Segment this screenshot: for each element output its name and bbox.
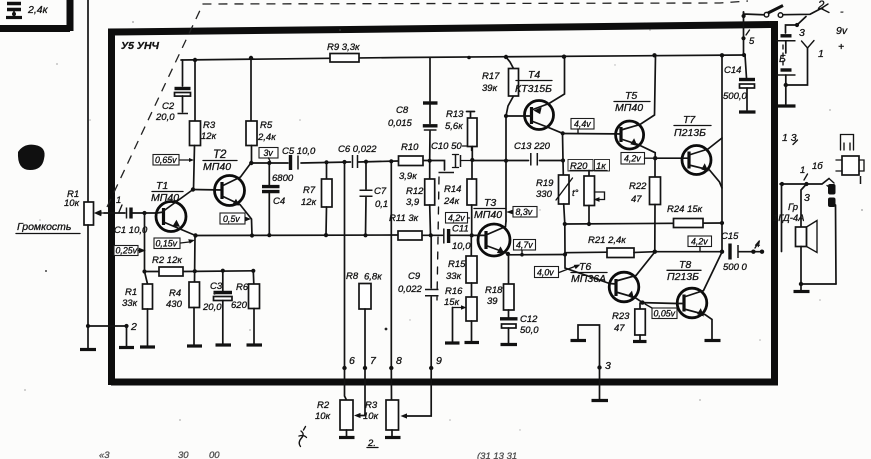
svg-text:0,022: 0,022 bbox=[398, 284, 422, 295]
svg-text:10,0: 10,0 bbox=[452, 241, 471, 252]
svg-text:15к: 15к bbox=[444, 297, 460, 308]
other module box top-left bbox=[0, 0, 70, 31]
resistor R22 47 bbox=[654, 158, 656, 177]
voltage 3v bbox=[259, 148, 278, 159]
svg-text:20,0: 20,0 bbox=[155, 112, 175, 123]
svg-text:R6: R6 bbox=[236, 282, 249, 293]
resistor R23 47 bbox=[639, 303, 641, 309]
svg-text:4,0v: 4,0v bbox=[537, 268, 554, 278]
wire R24 row y=224 bbox=[565, 223, 722, 224]
trim resistor R16 15k bbox=[466, 297, 477, 321]
svg-text:1: 1 bbox=[116, 195, 121, 206]
svg-text:R5: R5 bbox=[260, 120, 273, 131]
svg-text:R14: R14 bbox=[444, 184, 461, 195]
svg-text:3: 3 bbox=[804, 192, 810, 204]
svg-text:R16: R16 bbox=[445, 286, 463, 297]
wire R1 bottom to ground bbox=[88, 225, 127, 326]
svg-text:C4: C4 bbox=[273, 196, 285, 207]
svg-text:R7: R7 bbox=[303, 185, 316, 196]
wire rail bbox=[181, 55, 745, 60]
pencil squiggle bbox=[299, 427, 307, 447]
node 5 bbox=[741, 36, 745, 40]
svg-text:330: 330 bbox=[536, 189, 553, 200]
capacitor C11 10.0 bbox=[443, 229, 445, 244]
svg-text:4: 4 bbox=[755, 239, 760, 250]
wire T4 emitter node column x=563 bbox=[562, 133, 565, 175]
capacitor C6 0.022 bbox=[353, 155, 358, 168]
resistor R10 3.9k bbox=[399, 156, 424, 166]
svg-text:Гр: Гр bbox=[788, 202, 798, 213]
svg-text:КТ315Б: КТ315Б bbox=[515, 83, 552, 95]
transistor T2 MP40 bbox=[215, 176, 245, 206]
svg-text:1к: 1к bbox=[596, 161, 606, 172]
svg-text:R11 3к: R11 3к bbox=[389, 213, 419, 224]
wire x=565 down to emitter row bbox=[564, 224, 566, 255]
svg-text:3,9к: 3,9к bbox=[399, 171, 417, 182]
svg-text:3: 3 bbox=[799, 27, 805, 39]
svg-text:C1 10,0: C1 10,0 bbox=[114, 225, 148, 236]
svg-text:МП40: МП40 bbox=[474, 209, 502, 221]
svg-text:R1: R1 bbox=[125, 287, 137, 298]
svg-text:47: 47 bbox=[631, 194, 642, 205]
voltage 4.7v bbox=[514, 240, 536, 251]
capacitor 2.4k in top-left module bbox=[6, 4, 49, 18]
svg-text:R19: R19 bbox=[536, 178, 554, 189]
svg-text:C9: C9 bbox=[408, 271, 421, 282]
svg-text:«3: «3 bbox=[99, 450, 110, 459]
svg-text:R13: R13 bbox=[446, 109, 464, 120]
svg-text:430: 430 bbox=[166, 299, 183, 310]
svg-text:9v: 9v bbox=[836, 25, 848, 37]
wire pin8 vertical bbox=[390, 161, 392, 368]
svg-text:Б: Б bbox=[779, 53, 786, 65]
svg-text:R4: R4 bbox=[169, 288, 181, 299]
svg-text:500,0: 500,0 bbox=[723, 91, 747, 102]
wire T1 emitter down to R4 bbox=[194, 236, 197, 284]
svg-text:2,4к: 2,4к bbox=[27, 4, 49, 16]
resistor R3 12k bbox=[194, 60, 196, 121]
resistor R18 39 bbox=[508, 255, 510, 285]
node rail R3 bbox=[193, 58, 197, 62]
mechanical link dashed line (volume pot to switch) bbox=[107, 1, 748, 207]
capacitor C12 50.0 bbox=[500, 317, 518, 320]
svg-text:1: 1 bbox=[800, 165, 805, 176]
svg-text:R20: R20 bbox=[570, 161, 588, 172]
resistor R24 15k bbox=[674, 219, 704, 228]
capacitor C5 10.0 bbox=[289, 155, 292, 170]
svg-text:Т5: Т5 bbox=[625, 90, 637, 102]
svg-text:500 0: 500 0 bbox=[723, 262, 747, 273]
svg-text:5: 5 bbox=[749, 36, 755, 47]
capacitor C4 6800 bbox=[268, 163, 270, 185]
svg-text:C14: C14 bbox=[724, 65, 741, 76]
svg-text:33к: 33к bbox=[122, 298, 138, 309]
svg-text:4,7v: 4,7v bbox=[516, 240, 533, 250]
resistor R20 1k bbox=[588, 171, 590, 177]
resistor R7 12k bbox=[326, 162, 328, 179]
resistor R8 6.8k bbox=[359, 284, 371, 310]
svg-text:R23: R23 bbox=[612, 311, 630, 322]
svg-text:-: - bbox=[840, 6, 844, 18]
resistor R9 3.3k on rail bbox=[330, 54, 359, 63]
pin 1 tick bbox=[119, 205, 122, 212]
potentiometer R2 10k bbox=[340, 400, 353, 430]
svg-text:Т8: Т8 bbox=[679, 259, 691, 271]
svg-text:Громкость: Громкость bbox=[17, 221, 71, 233]
resistor R11 3k bbox=[398, 231, 422, 240]
svg-text:8,3v: 8,3v bbox=[516, 207, 533, 217]
wire to T5 base bbox=[563, 133, 616, 135]
svg-text:П213Б: П213Б bbox=[674, 127, 706, 139]
resistor R6 620 bbox=[252, 271, 255, 284]
wire T2 base bbox=[193, 189, 223, 192]
svg-text:R12: R12 bbox=[406, 186, 424, 197]
crease dashed vertical bbox=[437, 177, 439, 300]
resistor R5 2.4k bbox=[250, 58, 252, 121]
svg-text:1б: 1б bbox=[812, 161, 823, 172]
svg-text:6800: 6800 bbox=[272, 173, 294, 184]
svg-text:620: 620 bbox=[231, 300, 248, 311]
svg-text:9: 9 bbox=[436, 355, 442, 367]
voltage 4.4v bbox=[571, 119, 594, 130]
svg-text:R10: R10 bbox=[401, 142, 419, 153]
wires through bottom border to pots bbox=[345, 368, 347, 400]
svg-text:C2: C2 bbox=[162, 101, 175, 112]
svg-text:МП40: МП40 bbox=[151, 192, 179, 204]
wire input line from top bbox=[87, 0, 89, 202]
node 2 wire to ground bbox=[126, 326, 128, 346]
svg-text:4,2v: 4,2v bbox=[691, 237, 708, 247]
battery Б bbox=[781, 34, 792, 37]
resistor R21 2.4k bbox=[565, 251, 607, 254]
wire T6 emitter to T8 base bbox=[642, 302, 677, 305]
svg-text:(31 13 31: (31 13 31 bbox=[477, 451, 517, 459]
svg-text:R2: R2 bbox=[317, 400, 330, 411]
svg-text:0,1: 0,1 bbox=[375, 199, 388, 210]
svg-text:00: 00 bbox=[209, 450, 220, 459]
svg-text:0,5v: 0,5v bbox=[223, 214, 240, 224]
svg-text:R17: R17 bbox=[482, 71, 500, 82]
svg-text:6,8к: 6,8к bbox=[364, 272, 382, 283]
svg-text:Т4: Т4 bbox=[528, 69, 540, 81]
svg-text:У5 УНЧ: У5 УНЧ bbox=[121, 40, 160, 52]
resistor R1 33k inside bbox=[145, 272, 148, 285]
svg-text:6: 6 bbox=[349, 355, 355, 367]
scan specks bbox=[213, 292, 215, 294]
svg-text:C15: C15 bbox=[721, 231, 739, 242]
svg-text:4,2v: 4,2v bbox=[448, 213, 465, 223]
terminal 1-3 output top bbox=[793, 140, 798, 145]
svg-text:Т2: Т2 bbox=[213, 149, 227, 161]
battery bottom plate bbox=[785, 85, 787, 104]
svg-text:Т3: Т3 bbox=[484, 197, 496, 209]
svg-text:C3: C3 bbox=[210, 281, 223, 292]
svg-text:0,015: 0,015 bbox=[388, 118, 412, 129]
svg-text:R18: R18 bbox=[485, 285, 503, 296]
svg-text:10к: 10к bbox=[363, 411, 379, 422]
svg-text:МП40: МП40 bbox=[203, 161, 231, 173]
svg-text:1: 1 bbox=[818, 48, 824, 60]
terminal 3 tap bbox=[786, 17, 807, 34]
voltage 4.2v T5 emitter bbox=[621, 153, 645, 165]
node rail R5 bbox=[249, 56, 253, 60]
capacitor C13 220 bbox=[531, 153, 538, 166]
resistor R13 5.6k bbox=[467, 112, 475, 119]
svg-text:Т7: Т7 bbox=[683, 114, 696, 126]
wire bbox=[196, 234, 399, 237]
svg-text:10к: 10к bbox=[315, 411, 331, 422]
svg-text:R9 3,3к: R9 3,3к bbox=[327, 42, 360, 53]
transistor T8 P213B bbox=[677, 288, 707, 318]
ink blob smudge bbox=[18, 145, 45, 170]
jack contact bbox=[827, 179, 834, 191]
terminal 2 minus 9v bbox=[821, 4, 829, 13]
capacitor C3 20.0 bbox=[222, 271, 224, 291]
potentiometer R1 10k volume bbox=[84, 202, 94, 225]
resistor R12 3.9 bbox=[429, 161, 431, 179]
svg-text:12к: 12к bbox=[201, 131, 217, 142]
capacitor C9 0.022 on pin9 line bbox=[430, 235, 432, 288]
svg-text:1ГД-4А: 1ГД-4А bbox=[773, 213, 805, 224]
capacitor C15 500.0 bbox=[728, 244, 731, 260]
svg-text:П213Б: П213Б bbox=[667, 271, 699, 283]
speaker Gr 1GD-4A bbox=[801, 184, 807, 227]
svg-text:4,4v: 4,4v bbox=[574, 119, 591, 129]
pin 3 node and grounds bbox=[578, 325, 600, 368]
resistor R15 33k bbox=[470, 235, 472, 256]
capacitor C1 10.0 bbox=[126, 208, 128, 219]
switch to battery top right bbox=[744, 12, 764, 17]
svg-text:0,05v: 0,05v bbox=[654, 309, 676, 319]
node T1 emitter bbox=[193, 233, 197, 237]
svg-text:C7: C7 bbox=[374, 186, 387, 197]
voltage 0.65v bbox=[153, 155, 179, 166]
svg-text:C6 0,022: C6 0,022 bbox=[338, 144, 377, 155]
svg-text:C10 50: C10 50 bbox=[431, 141, 462, 152]
voltage 8.3v bbox=[513, 207, 537, 218]
transistor T4 KT315B bbox=[525, 101, 554, 130]
svg-text:3v: 3v bbox=[264, 148, 274, 158]
svg-text:47: 47 bbox=[614, 323, 625, 334]
svg-text:12к: 12к bbox=[301, 197, 317, 208]
speaker output wiring bbox=[781, 184, 783, 252]
wire T3 emitter row bbox=[508, 254, 565, 256]
svg-text:Т1: Т1 bbox=[156, 180, 168, 192]
main box frame У5 УНЧ bbox=[112, 25, 771, 386]
svg-text:R8: R8 bbox=[346, 271, 359, 282]
svg-text:30: 30 bbox=[178, 450, 189, 459]
svg-text:24к: 24к bbox=[443, 196, 460, 207]
voltage 4.2v mid bbox=[446, 213, 468, 224]
svg-text:R24 15к: R24 15к bbox=[667, 204, 703, 215]
svg-text:R2 12к: R2 12к bbox=[152, 255, 182, 266]
transistor T3 MP40 bbox=[478, 224, 510, 256]
svg-text:МП36А: МП36А bbox=[571, 273, 606, 285]
svg-text:0,15v: 0,15v bbox=[156, 239, 178, 249]
capacitor C8 0.015 bbox=[429, 57, 431, 101]
transistor T6 MP36A bbox=[609, 272, 639, 302]
svg-text:10к: 10к bbox=[64, 198, 80, 209]
svg-text:3,9: 3,9 bbox=[406, 197, 420, 208]
svg-text:R3: R3 bbox=[203, 120, 216, 131]
voltage 0.15v bbox=[154, 238, 180, 249]
svg-text:20,0: 20,0 bbox=[202, 302, 222, 313]
svg-text:39к: 39к bbox=[482, 83, 498, 94]
voltage 0.5v bbox=[220, 213, 245, 224]
wire output column x=722 bbox=[721, 55, 723, 251]
capacitor C7 0.1 bbox=[365, 162, 367, 189]
trimmer capacitor C10 50 bbox=[439, 172, 455, 174]
svg-text:2: 2 bbox=[130, 321, 137, 333]
resistor R4 430 bbox=[189, 282, 200, 308]
svg-text:0,65v: 0,65v bbox=[155, 155, 177, 165]
wire pin6 vertical bbox=[344, 162, 346, 368]
svg-text:Т6: Т6 bbox=[579, 261, 591, 273]
wire bbox=[251, 162, 288, 164]
svg-text:0,25v: 0,25v bbox=[116, 246, 138, 256]
wire T4-base column x=506 bbox=[506, 57, 514, 221]
svg-text:1 3: 1 3 bbox=[782, 132, 797, 144]
wire diagonal to T6 base bbox=[565, 255, 610, 284]
svg-text:R21 2,4к: R21 2,4к bbox=[588, 235, 626, 246]
svg-text:C11: C11 bbox=[452, 224, 469, 235]
svg-text:2,4к: 2,4к bbox=[257, 132, 276, 143]
svg-text:C12: C12 bbox=[520, 314, 538, 325]
wire pin7 (R8 bottom) bbox=[363, 366, 367, 370]
faint bottom text fragments bbox=[99, 450, 517, 459]
svg-text:R22: R22 bbox=[629, 181, 647, 192]
svg-text:8: 8 bbox=[396, 355, 402, 367]
svg-text:3: 3 bbox=[605, 360, 611, 372]
terminal 1 plus bbox=[786, 48, 808, 85]
placeholder groups appended below bbox=[16, 0, 332, 350]
capacitor C14 500.0 bbox=[745, 55, 747, 78]
ground bbox=[87, 326, 89, 348]
svg-text:C5 10,0: C5 10,0 bbox=[282, 146, 316, 157]
voltage 4.2v output bbox=[688, 236, 712, 247]
svg-text:4,2v: 4,2v bbox=[624, 154, 641, 164]
wire bbox=[145, 270, 253, 273]
wire C1 to T1 base bbox=[131, 212, 157, 214]
svg-text:33к: 33к bbox=[446, 271, 462, 282]
svg-text:МП40: МП40 bbox=[615, 102, 643, 114]
voltage 0.05v bbox=[652, 308, 677, 319]
wire pin5 vertical through border bbox=[743, 12, 745, 55]
svg-text:C13 220: C13 220 bbox=[514, 141, 551, 152]
svg-text:50,0: 50,0 bbox=[520, 325, 539, 336]
resistor R17 39k bbox=[509, 69, 519, 97]
capacitor C2 20.0 bbox=[182, 60, 184, 86]
transistor T5 MP40 bbox=[616, 121, 644, 149]
svg-text:R15: R15 bbox=[448, 259, 466, 270]
svg-text:2: 2 bbox=[817, 0, 825, 12]
svg-text:39: 39 bbox=[487, 296, 498, 307]
wire wiper to C1 bbox=[104, 212, 125, 214]
resistor R2 12k bbox=[159, 267, 183, 276]
svg-text:C8: C8 bbox=[396, 105, 409, 116]
svg-text:R3: R3 bbox=[365, 400, 378, 411]
thermistor R19 330 bbox=[559, 175, 570, 204]
svg-text:+: + bbox=[838, 41, 844, 53]
voltage 4.0v bbox=[535, 267, 559, 278]
resistor R14 24k bbox=[467, 179, 477, 205]
transistor T1 MP40 bbox=[156, 202, 186, 232]
voltage 0.25v bbox=[114, 246, 138, 256]
svg-text:5,6к: 5,6к bbox=[445, 121, 463, 132]
wire T5 emitter to T7 base bbox=[655, 157, 682, 159]
wire base node down to R2 wire bbox=[144, 213, 146, 272]
potentiometer R3 10k bbox=[386, 400, 399, 430]
svg-text:t°: t° bbox=[572, 188, 579, 199]
transistor T7 P213B bbox=[682, 146, 711, 175]
